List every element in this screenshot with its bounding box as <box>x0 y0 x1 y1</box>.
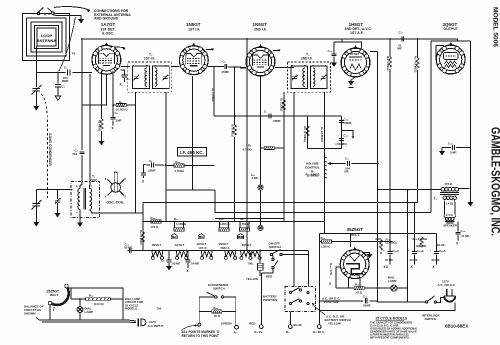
svg-text:C₁₈: C₁₈ <box>399 31 404 35</box>
wire to plug <box>437 298 445 303</box>
resistor R23 <box>141 232 144 242</box>
wire screen node <box>112 71 114 105</box>
resistor R28 <box>151 220 161 223</box>
svg-text:500: 500 <box>73 152 78 156</box>
socket icon 3 <box>238 234 244 239</box>
svg-text:A.C. INPUT: A.C. INPUT <box>148 324 164 328</box>
svg-text:B+ 90 V.: B+ 90 V. <box>313 330 325 334</box>
wire V6 top right ground <box>362 253 370 255</box>
capacitor C21 to ground <box>168 251 170 260</box>
tube V4 1H5GT <box>341 22 372 77</box>
resistor R29 <box>174 164 184 167</box>
svg-text:47 Ω: 47 Ω <box>356 291 363 295</box>
osc tuning capacitor C1B <box>32 200 42 210</box>
svg-text:A−: A− <box>234 331 238 335</box>
wire output B+ feed <box>378 189 440 191</box>
svg-text:1ST A.F.: 1ST A.F. <box>350 31 364 35</box>
svg-text:1ST I.F.: 1ST I.F. <box>144 57 155 61</box>
svg-text:RECT.: RECT. <box>50 293 59 297</box>
wire V4 grid cap <box>334 39 362 48</box>
wire B+90 lead <box>318 311 320 325</box>
svg-text:GANG CONDENSER: GANG CONDENSER <box>48 133 52 166</box>
wire V6 plate stub <box>349 234 351 248</box>
svg-text:R₁₈₀ 47Ω: R₁₈₀ 47Ω <box>329 263 333 276</box>
svg-text:R₂₅: R₂₅ <box>219 217 224 221</box>
I.F. 456 KC box <box>178 148 207 157</box>
main B+ bus mid <box>166 189 215 191</box>
socket icon 2 <box>198 234 204 239</box>
wire to external antenna note <box>54 7 90 11</box>
antenna switch <box>37 8 54 17</box>
capacitor C24 <box>457 221 459 231</box>
wire V4 right pins <box>370 51 378 53</box>
svg-text:.01MF.: .01MF. <box>363 304 372 308</box>
capacitor C7 <box>269 113 271 118</box>
svg-text:.05MF.: .05MF. <box>344 121 353 125</box>
25 cycle note <box>370 317 418 340</box>
variable capacitor C1A (tuning) <box>32 85 42 95</box>
svg-text:MMF.: MMF. <box>62 79 69 83</box>
svg-text:C₁₄: C₁₄ <box>344 134 349 138</box>
svg-text:RED: RED <box>266 275 273 279</box>
svg-text:C₁₅: C₁₅ <box>328 49 333 53</box>
loop antenna L1 <box>23 14 70 61</box>
svg-text:X: X <box>124 177 126 181</box>
svg-text:BLUE: BLUE <box>294 323 302 327</box>
screen bus lower <box>215 218 284 220</box>
svg-text:.05 MF.: .05 MF. <box>124 246 133 250</box>
rectifier box left <box>318 234 320 312</box>
wire dial lamp right <box>397 287 408 289</box>
svg-text:750 Ω: 750 Ω <box>242 222 250 226</box>
AVC bus mid <box>143 202 418 204</box>
economizer switch box <box>199 297 236 325</box>
svg-text:1A7GT: 1A7GT <box>175 243 185 247</box>
wire B+ top bus <box>82 39 457 41</box>
gang condenser dashed link <box>41 94 48 198</box>
trimmer C3 <box>55 190 62 218</box>
svg-text:10,000 Ω: 10,000 Ω <box>116 108 128 112</box>
vibrator resistor <box>258 263 264 270</box>
wire T3 left drop <box>283 92 285 222</box>
svg-text:LAMP: LAMP <box>85 310 94 314</box>
tube V6 35Z5GT rectifier <box>340 227 369 278</box>
wire V3 grid to tube <box>240 67 246 69</box>
wire R17 column <box>417 39 419 58</box>
power return <box>319 302 455 310</box>
V3 suppressor ground arrow <box>273 51 279 52</box>
25 cycle inset: rectifier arc <box>47 284 69 305</box>
svg-text:X: X <box>105 195 107 199</box>
svg-text:SWITCH: SWITCH <box>213 287 225 291</box>
resistor R27 <box>240 222 249 228</box>
svg-text:20 MF.: 20 MF. <box>410 258 419 262</box>
wire pilot column <box>260 148 262 226</box>
B- bus mid <box>215 190 431 213</box>
svg-text:SPEAKER: SPEAKER <box>443 224 457 228</box>
svg-text:3Q5GT: 3Q5GT <box>443 22 458 27</box>
svg-text:R₁₀ 4 MEG.: R₁₀ 4 MEG. <box>306 173 321 177</box>
svg-text:C₁₇: C₁₇ <box>345 157 349 161</box>
svg-text:C₂₀C: C₂₀C <box>393 249 400 253</box>
inset bottom rail <box>39 320 126 322</box>
wire C4 to osc coil <box>80 155 82 185</box>
V6 cathode row R19A <box>336 287 391 289</box>
filament V2 <box>151 251 163 260</box>
svg-text:ANTENNA: ANTENNA <box>37 38 57 43</box>
svg-text:1H5GT: 1H5GT <box>349 22 364 27</box>
svg-text:3 MF.: 3 MF. <box>450 151 457 155</box>
svg-text:.1 MF.: .1 MF. <box>251 176 259 180</box>
capacitor C4 <box>79 152 84 154</box>
svg-text:SWITCH: SWITCH <box>269 245 281 249</box>
svg-text:20 MF.: 20 MF. <box>385 258 394 262</box>
filter cap C20C <box>389 248 391 251</box>
svg-text:R₃₀: R₃₀ <box>214 306 219 310</box>
svg-text:2ND I.F.: 2ND I.F. <box>254 28 267 32</box>
inset R22 row <box>71 298 123 300</box>
capacitor C22 to ground <box>187 251 189 260</box>
filament V5 <box>240 251 252 260</box>
C19 row <box>319 300 377 302</box>
node junction <box>57 72 59 74</box>
capacitor C2 <box>55 84 65 88</box>
svg-text:2ND I.F.: 2ND I.F. <box>301 57 313 61</box>
wire T3 right drop <box>293 92 295 285</box>
IF transformer T2 <box>128 53 171 93</box>
svg-text:T₄: T₄ <box>434 197 438 201</box>
svg-text:R₂₃ 2,200Ω: R₂₃ 2,200Ω <box>139 230 143 245</box>
tube V5 3Q5GT <box>436 22 465 74</box>
resistor R26 <box>175 222 184 228</box>
svg-text:POSITION: POSITION <box>263 298 277 302</box>
svg-text:R₂₉: R₂₉ <box>176 160 181 164</box>
svg-text:POSITION: POSITION <box>324 300 338 304</box>
svg-text:MF.: MF. <box>398 47 403 51</box>
svg-text:OSC.: OSC. <box>91 179 99 183</box>
svg-text:C₂₅: C₂₅ <box>448 142 453 146</box>
terminal B+90 <box>317 325 321 329</box>
wire V5 inner <box>436 45 444 59</box>
tube V3 1N5GT <box>246 22 275 76</box>
battery switch box <box>285 287 316 312</box>
svg-text:1,200 Ω: 1,200 Ω <box>220 222 231 226</box>
node <box>165 164 167 166</box>
wire diode load row <box>290 115 342 117</box>
svg-text:RED: RED <box>249 322 256 326</box>
wire screen drop <box>225 115 227 117</box>
svg-text:YELLOW: YELLOW <box>246 277 258 281</box>
volume control R6 <box>323 92 325 222</box>
svg-text:SHOWN: SHOWN <box>24 312 36 316</box>
wire B+ lead <box>289 312 291 325</box>
svg-text:YELLOW: YELLOW <box>328 322 341 326</box>
filter cap C20B <box>414 203 416 252</box>
resistor R9 <box>282 100 285 110</box>
wire T2 right drop <box>165 92 167 222</box>
wire AVC bus <box>142 203 144 251</box>
inset box top <box>68 288 124 320</box>
svg-text:R₂₂: R₂₂ <box>89 294 94 298</box>
ground <box>33 106 39 111</box>
svg-text:R₂ 470Ω: R₂ 470Ω <box>98 120 102 132</box>
socket icon 1 <box>171 234 177 239</box>
wire R29 row <box>144 164 215 167</box>
terminal A- <box>235 325 239 329</box>
svg-text:1A7GT: 1A7GT <box>101 22 116 27</box>
svg-text:R₅ 1,000Ω: R₅ 1,000Ω <box>211 88 215 102</box>
svg-text:470 Ω: 470 Ω <box>445 182 453 186</box>
tube V2 1N5GT <box>179 22 208 75</box>
svg-text:B+: B+ <box>286 330 290 334</box>
osc slug adjust <box>105 172 127 205</box>
wire switch to ground <box>53 14 81 19</box>
V2 suppressor ground arrow <box>206 50 213 51</box>
capacitor C5 <box>112 105 114 117</box>
svg-text:1N5GT: 1N5GT <box>186 22 201 27</box>
svg-text:R₁₆ 1 MEG.: R₁₆ 1 MEG. <box>386 56 390 71</box>
capacitor C15 <box>333 42 335 53</box>
svg-text:170 Ω: 170 Ω <box>151 225 159 229</box>
power line to interlock <box>378 301 427 303</box>
svg-text:R₇ 10,000Ω: R₇ 10,000Ω <box>320 127 324 142</box>
svg-text:750: 750 <box>157 307 162 311</box>
svg-text:RED: RED <box>376 237 382 241</box>
svg-text:A+ 9V.: A+ 9V. <box>254 330 263 334</box>
wire C8 left leg <box>143 165 145 173</box>
svg-text:25 CYCLE MODELS: 25 CYCLE MODELS <box>376 317 408 321</box>
resistor R3 <box>113 104 116 106</box>
ground <box>33 222 39 227</box>
svg-text:.01 MF.: .01 MF. <box>461 234 470 238</box>
svg-text:& OSC.: & OSC. <box>102 32 114 36</box>
terminal A+ <box>259 325 263 329</box>
external antenna note <box>94 9 131 20</box>
filament V4 <box>201 251 213 260</box>
ground <box>99 141 105 146</box>
inset plug P1 <box>126 318 164 328</box>
terminal B+ <box>288 325 292 329</box>
svg-text:1H5GT: 1H5GT <box>197 242 207 246</box>
svg-text:(1,000Ω): (1,000Ω) <box>386 241 397 245</box>
svg-text:C₂₀A: C₂₀A <box>439 249 446 253</box>
svg-text:.05 MF.: .05 MF. <box>172 262 181 266</box>
svg-text:MF.: MF. <box>345 170 350 174</box>
svg-text:2D DET: 2D DET <box>350 52 360 56</box>
capacitor C6 <box>121 70 125 75</box>
svg-text:(.4 Ω): (.4 Ω) <box>446 202 453 206</box>
V6 heater resistor R18A <box>336 267 340 288</box>
wire V1 pin bus <box>82 104 102 106</box>
wire junction to C2 <box>57 73 59 84</box>
svg-text:I.F. 456 KC.: I.F. 456 KC. <box>180 150 204 155</box>
svg-text:(140 Ω): (140 Ω) <box>94 302 104 306</box>
svg-text:1N5GT: 1N5GT <box>219 242 229 246</box>
node at top bus left <box>81 38 83 40</box>
IF transformer T3 <box>288 53 331 93</box>
svg-text:1ST I.F.: 1ST I.F. <box>188 28 200 32</box>
resistor R21 <box>379 240 382 250</box>
filament bus <box>132 250 309 252</box>
svg-text:.1MF.: .1MF. <box>115 119 122 123</box>
svg-text:R₄ 3 MEG: R₄ 3 MEG <box>231 124 235 137</box>
oscillator coil T1 <box>71 175 143 223</box>
svg-text:RETURN TO THIS POINT: RETURN TO THIS POINT <box>182 334 219 338</box>
tube V1 1A7GT <box>92 22 121 74</box>
capacitor C25 row <box>442 147 470 149</box>
ground osc coil <box>77 223 83 228</box>
wire R11 branch <box>306 116 308 148</box>
aux switch S2 <box>272 258 274 260</box>
svg-text:1N5GT: 1N5GT <box>253 22 268 27</box>
rect box top <box>319 233 436 235</box>
wire B minus column <box>407 190 409 303</box>
wire screen bus mid <box>214 115 342 117</box>
capacitor C9 series <box>214 66 224 68</box>
svg-text:SWITCH: SWITCH <box>425 317 437 321</box>
wire R16 column <box>389 39 391 57</box>
svg-text:WITH PRESENT COMPONENTS.: WITH PRESENT COMPONENTS. <box>370 335 410 339</box>
wire V3 plate to T3 <box>275 67 294 69</box>
vibrator resistor stub <box>259 251 261 277</box>
svg-text:C₇: C₇ <box>264 110 267 114</box>
svg-text:2.4 Ω: 2.4 Ω <box>446 213 454 217</box>
output transformer T4 <box>434 182 470 228</box>
svg-text:.04 MF.: .04 MF. <box>191 262 200 266</box>
wire osc bus <box>36 189 72 191</box>
svg-text:50 Ω: 50 Ω <box>214 314 221 318</box>
svg-text:1ST I.F.: 1ST I.F. <box>199 246 208 250</box>
node <box>101 104 103 106</box>
inset left leg <box>49 305 51 320</box>
wire C1A to ground <box>35 92 37 107</box>
svg-text:.05MF.: .05MF. <box>273 119 282 123</box>
wire A battery lead <box>260 273 262 325</box>
terminal X return <box>198 323 201 326</box>
resistor R30 <box>199 310 236 312</box>
svg-text:R₉ 2,200Ω: R₉ 2,200Ω <box>280 98 284 112</box>
svg-text:C₂₀B: C₂₀B <box>417 249 424 253</box>
svg-text:.05MF.: .05MF. <box>221 70 230 74</box>
V5 output box <box>431 41 457 212</box>
resistor R20 <box>420 237 423 247</box>
filter cap C20A <box>436 234 438 252</box>
wire V1 anode column <box>89 74 92 185</box>
svg-text:R₂₈: R₂₈ <box>151 216 156 220</box>
wire external antenna curve <box>59 17 76 71</box>
svg-text:VIB.: VIB. <box>248 262 254 266</box>
wire V1 plate to T2 <box>121 65 130 67</box>
capacitor C8 series <box>152 162 154 167</box>
wire V2 grid to T2 <box>171 66 179 68</box>
wire V2 cathode drop <box>192 76 194 190</box>
svg-text:C₂₄: C₂₄ <box>461 229 466 233</box>
svg-text:MODEL 5006: MODEL 5006 <box>492 7 498 48</box>
capacitor C23 series <box>129 248 131 253</box>
svg-text:35Z5GT: 35Z5GT <box>347 227 364 232</box>
wire osc grid drop <box>81 39 83 150</box>
ground <box>78 19 84 24</box>
wire T2 secondary drop <box>135 92 137 213</box>
svg-text:.05MF.: .05MF. <box>148 169 157 173</box>
wire switch bus <box>282 255 308 285</box>
interlock switch <box>426 301 428 303</box>
wire C16 branch <box>341 116 343 148</box>
svg-text:X: X <box>124 195 126 199</box>
wire V3 cathode drop <box>260 76 262 148</box>
wire osc cap <box>35 190 37 204</box>
inset dial lamp DL1 <box>77 307 83 313</box>
svg-text:R₁₇ 0.5 MEG.: R₁₇ 0.5 MEG. <box>414 56 418 73</box>
svg-text:AND GROUND: AND GROUND <box>94 17 119 21</box>
wire volume tap with C17 <box>328 163 378 165</box>
svg-text:6B10-88EX: 6B10-88EX <box>445 324 468 329</box>
svg-text:1N5GT: 1N5GT <box>152 243 162 247</box>
wire grid return drop <box>246 39 248 251</box>
pilot X node <box>258 225 263 230</box>
svg-text:X: X <box>105 177 107 181</box>
wire V6 bottom pins <box>348 277 360 288</box>
svg-text:R₂₇: R₂₇ <box>240 217 244 221</box>
svg-text:R₂₀ 2,000Ω: R₂₀ 2,000Ω <box>413 237 428 241</box>
svg-text:C₁₉: C₁₉ <box>363 295 368 299</box>
svg-text:4,700Ω: 4,700Ω <box>175 169 185 173</box>
wire corner to rect box <box>324 222 326 234</box>
capacitor C18 <box>402 36 404 41</box>
resistor R8 row <box>261 147 284 149</box>
resistor R4 <box>234 67 236 125</box>
svg-text:BLUE: BLUE <box>437 243 445 247</box>
on-off switch S1 <box>270 253 273 256</box>
wire V4 ground <box>351 77 356 81</box>
svg-text:GREEN: GREEN <box>221 321 232 325</box>
svg-text:R₁₁ (1 MEG): R₁₁ (1 MEG) <box>303 126 307 142</box>
resistor R25 <box>220 222 229 228</box>
svg-text:20 MF.: 20 MF. <box>432 258 441 262</box>
filament V3 <box>224 251 236 260</box>
V1 grid cap arrow <box>110 47 124 51</box>
ground open <box>55 96 61 100</box>
svg-text:(.002MF.): (.002MF.) <box>336 142 348 146</box>
wire C2 to ground <box>57 87 59 96</box>
plug P2 <box>438 279 456 301</box>
wire V1 center pin <box>102 74 107 105</box>
wire C16 bottom rail <box>307 147 341 149</box>
node <box>112 104 114 106</box>
svg-text:2ND I.F.: 2ND I.F. <box>221 246 231 250</box>
wire antenna feed <box>46 45 48 47</box>
wire antenna to grid bus <box>36 72 92 74</box>
svg-text:1,500 Ω: 1,500 Ω <box>176 222 187 226</box>
resistor R2 <box>100 119 103 129</box>
filament top bus <box>143 221 325 223</box>
svg-text:R₁₈: R₁₈ <box>321 236 326 240</box>
dial lamp DL2 <box>391 285 397 291</box>
svg-text:MODELS.: MODELS. <box>125 307 138 311</box>
svg-text:R₁₉₀: R₁₉₀ <box>355 283 361 287</box>
wire V1 cathode column <box>101 71 103 119</box>
svg-text:OSC. COIL: OSC. COIL <box>107 201 124 205</box>
node dots on filament bus <box>152 250 154 252</box>
svg-text:R₂₆: R₂₆ <box>174 217 179 221</box>
svg-text:GAMBLE-SKOGMO, INC.: GAMBLE-SKOGMO, INC. <box>489 127 500 236</box>
svg-text:4,700Ω: 4,700Ω <box>243 148 253 152</box>
filament V1 <box>176 251 188 260</box>
svg-text:GREEN: GREEN <box>416 244 426 248</box>
svg-text:A.C. OR D.C.: A.C. OR D.C. <box>438 283 456 287</box>
svg-text:LAMP: LAMP <box>388 279 397 283</box>
capacitor C1 <box>62 66 73 83</box>
